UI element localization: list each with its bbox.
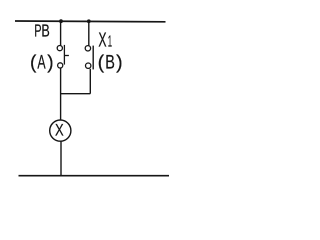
wire from top rail to pushbutton PB bbox=[60, 21, 62, 45]
svg-text:B: B bbox=[105, 50, 115, 73]
label PB bbox=[34, 22, 50, 42]
svg-text:A: A bbox=[37, 52, 45, 73]
svg-text:): ) bbox=[47, 52, 53, 73]
svg-text:B: B bbox=[41, 22, 49, 42]
wire junction horizontal connecting branches bbox=[61, 93, 91, 95]
wire from coil X to bottom rail bbox=[60, 141, 62, 175]
pushbutton PB contact (A) terminal circle bottom bbox=[58, 63, 63, 68]
wire from PB bottom to junction and lamp bbox=[60, 68, 62, 120]
svg-text:1: 1 bbox=[108, 32, 112, 50]
wire from top rail to relay contact X1 bbox=[88, 21, 90, 46]
wire from contact X1 bottom to junction bbox=[89, 69, 91, 94]
svg-text:(: ( bbox=[98, 52, 105, 74]
label X1 bbox=[98, 28, 112, 51]
relay coil letter X bbox=[55, 121, 64, 140]
pushbutton PB actuator tick bbox=[64, 55, 69, 57]
relay contact X1 (B) terminal circle bottom bbox=[86, 63, 91, 68]
junction dot node right on top rail bbox=[87, 19, 91, 23]
pushbutton PB movable contact bar bbox=[63, 45, 65, 65]
svg-text:): ) bbox=[116, 52, 123, 74]
relay contact X1 (B) terminal circle top bbox=[85, 46, 90, 51]
relay contact X1 movable contact bar bbox=[92, 46, 94, 70]
label (B) bbox=[98, 50, 123, 73]
bottom power rail bbox=[19, 175, 170, 177]
label (A) bbox=[30, 52, 54, 74]
svg-text:(: ( bbox=[30, 52, 37, 73]
svg-text:X: X bbox=[98, 28, 106, 51]
pushbutton PB contact (A) terminal circle top bbox=[57, 46, 62, 51]
top power rail bbox=[15, 20, 166, 23]
junction dot node left on top rail bbox=[59, 19, 63, 23]
svg-text:X: X bbox=[55, 121, 64, 140]
relay coil X bbox=[50, 120, 71, 141]
svg-text:P: P bbox=[34, 22, 41, 41]
